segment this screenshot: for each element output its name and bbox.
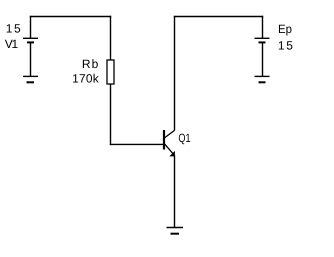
battery V1 long plate [23, 37, 38, 39]
wire Q1 collector vertical [174, 16, 176, 131]
svg-text:Ep: Ep [278, 22, 292, 36]
ground symbol G2 short bar [259, 81, 266, 83]
wire top-left horizontal (V1 to Rb) [30, 16, 111, 18]
svg-text:170k: 170k [72, 71, 100, 85]
transistor Q1 base bar [163, 130, 165, 150]
svg-text:Q1: Q1 [178, 131, 190, 145]
wire Q1 emitter vertical to ground [174, 155, 176, 227]
wire top-right horizontal (collector to Ep) [174, 16, 263, 18]
wire Rb bottom lead down to base corner [110, 84, 112, 145]
battery V1 short plate [27, 41, 34, 43]
ground symbol G3 short bar [171, 233, 180, 235]
transistor Q1 emitter diagonal [165, 144, 175, 155]
battery Ep long plate [255, 37, 270, 39]
wire Rb top lead [110, 16, 112, 60]
wire base horizontal to Q1 [110, 143, 164, 145]
wire Ep positive terminal stub [262, 16, 264, 39]
transistor Q1 emitter arrow head [169, 151, 175, 157]
transistor Q1 collector diagonal [165, 130, 175, 137]
svg-text:15: 15 [6, 22, 21, 36]
battery Ep short plate [259, 41, 266, 43]
resistor Rb body [107, 60, 114, 84]
ground symbol G3 long bar [167, 227, 184, 229]
wire Ep negative terminal to ground [262, 42, 264, 76]
svg-text:Rb: Rb [82, 57, 99, 71]
svg-text:V1: V1 [5, 37, 19, 51]
ground symbol G1 short bar [27, 81, 35, 83]
wire V1 positive terminal up to corner [30, 16, 32, 39]
svg-text:15: 15 [278, 39, 293, 53]
ground symbol G1 long bar [23, 75, 38, 77]
ground symbol G2 long bar [255, 75, 270, 77]
wire V1 negative terminal to ground [30, 42, 32, 76]
